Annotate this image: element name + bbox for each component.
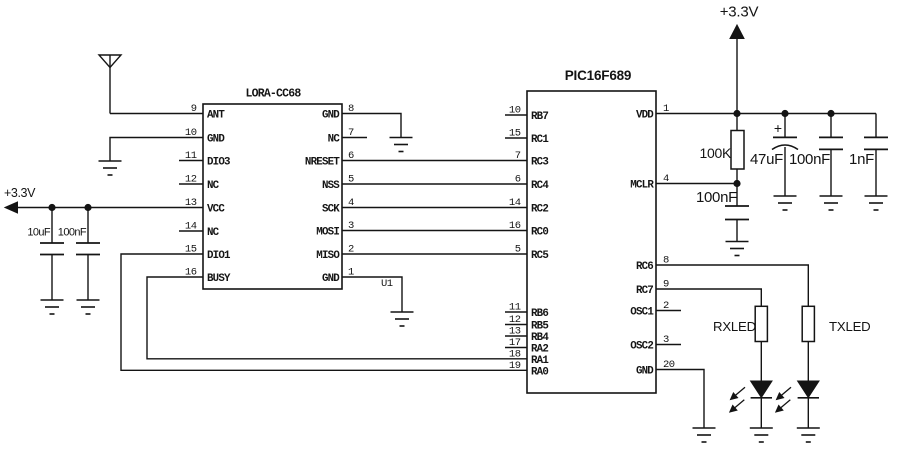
- power terminal +3.3V (left): [5, 202, 18, 213]
- emission arrows (TXLED): [776, 387, 791, 412]
- svg-text:VDD: VDD: [636, 110, 654, 122]
- junction node (100nF tap): [84, 204, 91, 211]
- PIC pin 17 RA2: [505, 337, 548, 356]
- svg-text:RC2: RC2: [531, 204, 548, 216]
- LED TXLED: [798, 342, 819, 429]
- svg-text:9: 9: [191, 103, 197, 115]
- svg-text:18: 18: [509, 348, 521, 360]
- PIC pin 15 RC1: [505, 128, 549, 147]
- svg-text:13: 13: [185, 197, 197, 209]
- svg-text:+3.3V: +3.3V: [720, 4, 759, 21]
- svg-text:NC: NC: [207, 227, 220, 239]
- LORA pin 7 NC: [328, 127, 367, 146]
- svg-text:11: 11: [185, 150, 197, 162]
- wire MISO (LORA pin 2) to RC5 (PIC pin 5): [342, 253, 527, 255]
- LORA pin 8 GND: [322, 103, 354, 122]
- ground (47uF): [774, 196, 797, 210]
- svg-text:12: 12: [509, 314, 521, 326]
- resistor 100K: [731, 114, 744, 184]
- svg-text:DIO3: DIO3: [207, 157, 230, 169]
- svg-text:TXLED: TXLED: [829, 319, 871, 334]
- junction node (47uF tap): [781, 110, 788, 117]
- PIC pin 5 RC5: [515, 244, 549, 263]
- svg-text:RXLED: RXLED: [713, 319, 756, 334]
- svg-text:LORA-CC68: LORA-CC68: [246, 88, 302, 101]
- svg-text:SCK: SCK: [322, 204, 340, 216]
- svg-text:RB6: RB6: [531, 308, 548, 320]
- svg-text:14: 14: [185, 221, 197, 233]
- wire antenna to LORA ANT pin 9: [110, 113, 203, 115]
- svg-text:RC3: RC3: [531, 157, 548, 169]
- svg-text:14: 14: [509, 197, 521, 209]
- PIC pin 20 GND: [636, 359, 675, 378]
- wire MOSI (LORA pin 3) to RC0 (PIC pin 16): [342, 230, 527, 232]
- PIC pin 7 RC3: [515, 150, 549, 169]
- PIC pin 4 MCLR: [630, 173, 669, 192]
- svg-text:OSC1: OSC1: [630, 307, 654, 319]
- antenna: [99, 55, 121, 114]
- PIC pin 6 RC4: [515, 174, 550, 193]
- svg-text:5: 5: [515, 244, 521, 256]
- resistor (TXLED series): [802, 306, 814, 341]
- PIC pin 13 RB4: [505, 326, 549, 345]
- svg-text:+3.3V: +3.3V: [4, 186, 36, 200]
- svg-text:NRESET: NRESET: [305, 157, 340, 169]
- svg-text:RB4: RB4: [531, 332, 549, 344]
- junction node (100nF tap): [827, 110, 834, 117]
- svg-text:OSC2: OSC2: [630, 341, 653, 353]
- svg-text:7: 7: [515, 150, 521, 162]
- svg-text:47uF: 47uF: [750, 151, 783, 168]
- svg-text:RC0: RC0: [531, 227, 548, 239]
- PIC pin 9 RC7: [636, 279, 669, 298]
- capacitor 47uF (polarized): [772, 114, 798, 197]
- power terminal +3.3V (top): [730, 25, 744, 114]
- svg-text:RC4: RC4: [531, 180, 549, 192]
- svg-text:U1: U1: [381, 278, 393, 290]
- svg-text:RA2: RA2: [531, 344, 548, 356]
- wire LORA GND pin 10 to ground: [110, 138, 203, 162]
- PIC pin 14 RC2: [509, 197, 548, 216]
- wire +3.3V rail to LORA VCC pin 13: [6, 207, 203, 209]
- svg-text:19: 19: [509, 360, 521, 372]
- svg-text:12: 12: [185, 174, 197, 186]
- svg-text:17: 17: [509, 337, 521, 349]
- junction node (MCLR): [733, 180, 740, 187]
- LORA pin 3 MOSI: [316, 220, 354, 239]
- svg-text:DIO1: DIO1: [207, 250, 231, 262]
- LORA pin 4 SCK: [322, 197, 354, 216]
- capacitor 10uF: [40, 208, 64, 301]
- LORA pin 2 MISO: [316, 244, 354, 263]
- svg-text:100nF: 100nF: [58, 227, 87, 239]
- ground (RXLED): [750, 428, 773, 442]
- svg-text:NC: NC: [328, 134, 341, 146]
- wire NRESET (LORA pin 6) to RC3 (PIC pin 7): [342, 160, 527, 162]
- PIC pin 12 RB5: [505, 314, 548, 333]
- svg-text:7: 7: [348, 127, 354, 139]
- svg-text:RA0: RA0: [531, 366, 548, 378]
- LORA pin 1 GND: [322, 267, 354, 286]
- svg-text:6: 6: [515, 174, 521, 186]
- wire NSS (LORA pin 5) to RC4 (PIC pin 6): [342, 183, 527, 185]
- svg-text:PIC16F689: PIC16F689: [565, 68, 632, 83]
- LORA pin 15 DIO1: [185, 244, 231, 263]
- wire MCLR (PIC pin 4) to 100K/100nF: [656, 183, 737, 185]
- svg-text:10: 10: [509, 105, 521, 117]
- svg-text:MOSI: MOSI: [316, 227, 339, 239]
- ground (1nF): [865, 196, 888, 210]
- svg-text:VCC: VCC: [207, 204, 225, 216]
- LORA pin 14 NC: [179, 221, 220, 240]
- svg-text:10: 10: [185, 127, 197, 139]
- junction node (10uF tap): [48, 204, 55, 211]
- svg-text:RC6: RC6: [636, 261, 653, 273]
- svg-text:11: 11: [509, 302, 521, 314]
- LORA pin 16 BUSY: [185, 267, 231, 286]
- LORA pin 13 VCC: [185, 197, 225, 216]
- IC PIC16F689 body: [527, 91, 656, 393]
- svg-text:13: 13: [509, 326, 521, 338]
- svg-text:+: +: [774, 120, 782, 136]
- svg-text:100K: 100K: [700, 145, 732, 161]
- ground (100nF left): [77, 300, 100, 314]
- svg-text:2: 2: [663, 300, 669, 312]
- svg-text:100nF: 100nF: [789, 151, 830, 168]
- svg-text:RC1: RC1: [531, 134, 549, 146]
- emission arrows (RXLED): [730, 387, 745, 412]
- LORA pin 9 ANT: [191, 103, 226, 122]
- svg-text:GND: GND: [636, 366, 654, 378]
- ground (MCLR 100nF): [726, 242, 749, 256]
- LED RXLED: [751, 342, 772, 429]
- PIC pin 16 RC0: [509, 220, 548, 239]
- wire VDD rail (PIC pin 1 to bypass caps): [656, 113, 876, 115]
- svg-text:RC5: RC5: [531, 250, 548, 262]
- LORA pin 5 NSS: [322, 174, 354, 193]
- LORA pin 11 DIO3: [179, 150, 230, 169]
- wire RC6 (PIC pin 8) to TXLED resistor: [656, 265, 808, 306]
- PIC pin 19 RA0: [509, 360, 548, 379]
- LORA pin 10 GND: [185, 127, 225, 146]
- junction node (100K / +3.3V): [733, 110, 740, 117]
- svg-text:1nF: 1nF: [849, 151, 874, 168]
- wire LORA GND pin 1 to ground: [342, 277, 402, 312]
- svg-text:MISO: MISO: [316, 250, 340, 262]
- capacitor 100nF (VDD bypass): [819, 114, 843, 197]
- PIC pin 11 RB6: [505, 302, 548, 321]
- svg-text:RB7: RB7: [531, 111, 548, 123]
- PIC pin 18 RA1: [509, 348, 549, 367]
- svg-text:RC7: RC7: [636, 285, 653, 297]
- svg-text:RB5: RB5: [531, 321, 548, 333]
- LORA pin 12 NC: [179, 174, 220, 193]
- ground (TXLED): [797, 428, 820, 442]
- svg-text:NC: NC: [207, 180, 220, 192]
- svg-text:100nF: 100nF: [696, 189, 737, 206]
- svg-text:15: 15: [509, 128, 521, 140]
- IC LORA-CC68 body: [203, 104, 342, 289]
- PIC pin 1 VDD: [636, 103, 669, 122]
- svg-text:GND: GND: [322, 110, 340, 122]
- ground (LORA pin 10): [99, 161, 122, 175]
- LORA pin 6 NRESET: [305, 150, 354, 169]
- PIC pin 10 RB7: [505, 105, 548, 124]
- wire LORA DIO1 pin 15 to PIC RA0 pin 19: [121, 254, 527, 370]
- svg-text:16: 16: [509, 220, 521, 232]
- svg-text:10uF: 10uF: [27, 227, 51, 239]
- resistor (RXLED series): [755, 306, 767, 341]
- wire LORA GND pin 8 to ground: [342, 114, 401, 138]
- PIC pin 8 RC6: [636, 255, 669, 274]
- svg-text:BUSY: BUSY: [207, 273, 231, 285]
- svg-text:ANT: ANT: [207, 110, 225, 122]
- svg-text:3: 3: [663, 334, 669, 346]
- wire RC7 (PIC pin 9) to RXLED resistor: [656, 289, 761, 306]
- PIC pin 2 OSC1: [630, 300, 681, 319]
- svg-text:RA1: RA1: [531, 355, 549, 367]
- ground (10uF): [41, 300, 64, 314]
- capacitor 1nF: [864, 114, 888, 197]
- svg-text:NSS: NSS: [322, 180, 340, 192]
- capacitor 100nF (left): [76, 208, 100, 301]
- wire LORA BUSY pin 16 to PIC RA1 pin 18: [147, 277, 527, 359]
- ground (100nF VDD): [820, 196, 843, 210]
- ground (PIC pin 20): [693, 428, 716, 442]
- wire PIC GND pin 20 to ground: [656, 370, 704, 429]
- capacitor 100nF (MCLR): [725, 184, 749, 242]
- wire SCK (LORA pin 4) to RC2 (PIC pin 14): [342, 207, 527, 209]
- ground (LORA pin 1, U1): [391, 312, 414, 326]
- PIC pin 3 OSC2: [630, 334, 681, 353]
- svg-text:MCLR: MCLR: [630, 180, 654, 192]
- svg-text:GND: GND: [207, 134, 225, 146]
- ground (LORA pin 8): [390, 138, 413, 152]
- svg-text:GND: GND: [322, 273, 340, 285]
